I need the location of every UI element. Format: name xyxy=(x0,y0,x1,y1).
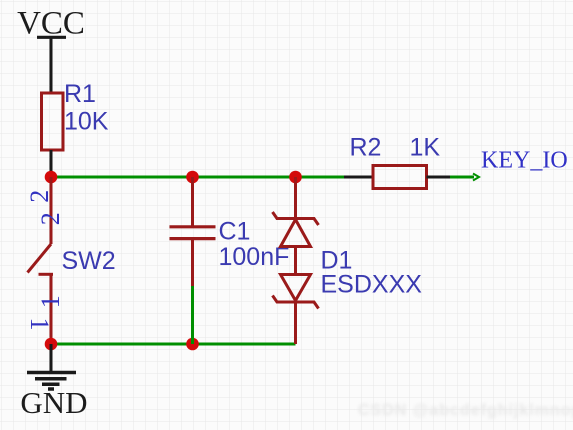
switch SW2 pin 2 xyxy=(50,177,53,244)
resistor R2 xyxy=(373,166,427,189)
switch SW2 pin 1 xyxy=(50,275,53,345)
svg-text:C1: C1 xyxy=(219,218,251,246)
wire node B to ground xyxy=(50,344,53,371)
diode D1 upper triangle xyxy=(281,220,311,247)
wire R2 to KEY_IO xyxy=(450,176,474,179)
svg-text:1: 1 xyxy=(36,295,65,308)
svg-text:2: 2 xyxy=(36,212,65,225)
capacitor C1 top pin xyxy=(191,177,194,226)
resistor R1 xyxy=(42,93,64,150)
junction node A xyxy=(45,171,58,184)
power symbol VCC xyxy=(17,6,85,42)
svg-text:CSDN @abcdefghijklmnop: CSDN @abcdefghijklmnop xyxy=(358,402,573,419)
svg-text:KEY_IO: KEY_IO xyxy=(481,148,568,174)
svg-text:2: 2 xyxy=(25,190,54,203)
wire C1 to bottom net xyxy=(191,286,194,344)
diode D1 bottom pin xyxy=(294,302,297,344)
svg-text:ESDXXX: ESDXXX xyxy=(321,271,423,299)
wire top net xyxy=(51,176,344,179)
switch SW2 contact xyxy=(39,273,54,276)
resistor R2 left pin xyxy=(344,176,373,179)
svg-text:1: 1 xyxy=(25,318,54,331)
diode D1 middle link xyxy=(294,247,297,275)
ground xyxy=(27,373,76,390)
svg-text:1K: 1K xyxy=(410,134,441,162)
junction C1 bottom xyxy=(186,338,199,351)
resistor R2 right pin xyxy=(427,176,451,179)
svg-text:SW2: SW2 xyxy=(62,247,116,275)
svg-text:10K: 10K xyxy=(64,108,109,136)
junction node B xyxy=(45,338,58,351)
capacitor C1 xyxy=(170,227,216,239)
svg-text:R2: R2 xyxy=(350,134,382,162)
wire VCC to R1 xyxy=(50,38,53,93)
wire R1 to node A xyxy=(50,150,53,177)
svg-text:GND: GND xyxy=(20,385,87,420)
diode D1 lower zener cathode bar xyxy=(273,296,319,309)
capacitor C1 bottom pin xyxy=(191,239,194,286)
diode D1 upper zener cathode bar xyxy=(273,212,319,225)
switch SW2 lever xyxy=(28,244,52,273)
wire bottom net xyxy=(51,343,296,346)
diode D1 top pin xyxy=(294,177,297,219)
diode D1 lower triangle xyxy=(281,275,311,301)
net endpoint arrow xyxy=(473,174,479,181)
junction D1 top xyxy=(289,171,302,184)
junction C1 top xyxy=(186,171,199,184)
svg-text:R1: R1 xyxy=(64,80,96,108)
